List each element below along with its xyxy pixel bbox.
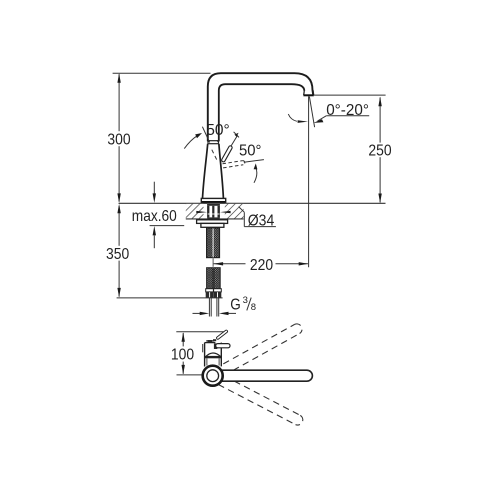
spout inner outline <box>219 84 304 141</box>
svg-text:0°-20°: 0°-20° <box>326 102 369 119</box>
svg-text:100: 100 <box>171 347 194 364</box>
dim line 300-350 <box>118 74 120 296</box>
rotation arc arrow <box>254 167 257 183</box>
dashed lever lowered <box>223 161 245 168</box>
lever angle extension line <box>244 160 264 163</box>
connection pipe right <box>216 298 218 317</box>
v2 lever handle <box>214 343 217 349</box>
spout outer outline <box>208 73 313 141</box>
spray arc left <box>288 114 297 121</box>
svg-text:8: 8 <box>251 302 256 313</box>
base flange bottom edge <box>202 201 226 203</box>
svg-text:300: 300 <box>107 132 130 149</box>
lever handle <box>223 148 230 161</box>
svg-text:3: 3 <box>243 295 248 306</box>
mounting nut <box>201 223 224 227</box>
max.60 lower arrow <box>153 236 155 249</box>
tilt arc arrow <box>184 136 197 149</box>
svg-text:G: G <box>230 297 241 314</box>
mounting washer <box>197 220 228 224</box>
svg-text:350: 350 <box>106 246 129 263</box>
arrow 220 right <box>299 262 309 265</box>
arrow 250 down <box>378 194 381 204</box>
svg-text:50°: 50° <box>239 142 262 159</box>
arrow 300 up <box>117 73 120 83</box>
arrow 100 down <box>182 365 185 375</box>
spray angle line <box>309 97 314 128</box>
v2 pivot circle <box>203 366 223 386</box>
dim line 250 <box>379 97 381 142</box>
shank through countertop <box>207 204 220 220</box>
G3/8 leader left <box>193 312 202 314</box>
arrow 350 down <box>117 288 120 298</box>
svg-text:220: 220 <box>250 257 273 274</box>
outlet extension line down <box>308 96 310 267</box>
extension line top of spout <box>113 72 211 74</box>
max.60 bottom reference line <box>150 225 185 227</box>
countertop top line <box>119 202 386 204</box>
dim line 100 <box>182 333 184 346</box>
dim line 220 <box>214 263 246 265</box>
0-20 label leader <box>326 115 369 117</box>
arrow 300 down <box>117 193 120 203</box>
max.60 upper arrow <box>153 182 155 194</box>
countertop bottom line <box>186 218 244 220</box>
G3/8 leader right <box>228 312 237 314</box>
fitting collar left <box>206 289 214 292</box>
svg-text:250: 250 <box>368 143 391 160</box>
v2 body <box>203 339 222 366</box>
arrow 220 left <box>214 262 224 265</box>
flex hose right <box>214 268 220 289</box>
joint end wedges <box>207 140 210 144</box>
arrow 100 up <box>182 332 185 342</box>
svg-text:Ø34: Ø34 <box>248 213 275 230</box>
hidden lever shaft dashes <box>212 150 218 162</box>
countertop hatch right <box>225 204 244 219</box>
body right edge <box>219 144 224 199</box>
body left edge <box>203 144 208 199</box>
v2 extension line top <box>176 331 223 333</box>
v2 dashed swivel spout upper <box>223 324 302 370</box>
flex hose left <box>207 268 213 289</box>
fitting collar right <box>214 289 222 292</box>
arrow 350 up <box>117 204 120 214</box>
lever axis leader <box>231 135 238 146</box>
connection pipe left <box>208 298 210 317</box>
svg-text:max.60: max.60 <box>132 208 177 225</box>
base flange <box>201 198 225 202</box>
spout outlet bottom edge <box>303 94 313 96</box>
break centerline <box>212 258 214 267</box>
leader tick cross <box>234 132 239 138</box>
body joint lines <box>207 140 219 142</box>
hole diameter arrows <box>196 211 207 213</box>
extension line outlet right <box>314 94 386 96</box>
v2 raised lever rod <box>218 331 227 338</box>
arrow 250 up <box>378 97 381 107</box>
fitting nut right <box>214 292 222 298</box>
fitting nut left <box>206 292 214 298</box>
v2 spout tube <box>214 369 307 382</box>
threaded shank tube <box>207 228 220 258</box>
svg-text:50°: 50° <box>206 122 230 139</box>
v2 dashed swivel spout lower <box>218 381 302 425</box>
v2 extension line bottom <box>177 374 204 376</box>
tilt reference line <box>202 127 209 143</box>
extension line bottom of shank <box>117 297 223 299</box>
spout outlet aerator <box>304 90 314 95</box>
diameter label leader <box>239 207 245 213</box>
countertop hatch left <box>186 204 204 219</box>
